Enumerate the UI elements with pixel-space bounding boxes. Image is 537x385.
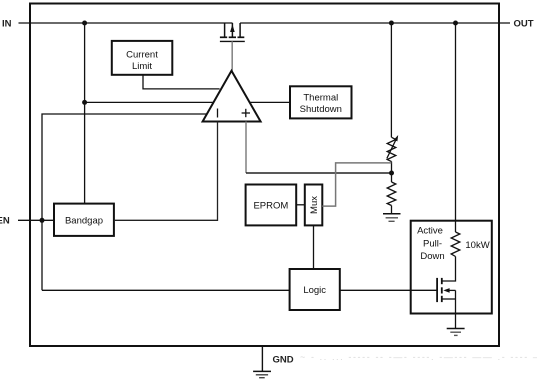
svg-text:EN: EN: [0, 216, 10, 227]
wire Mux output to divider tap: [322, 163, 391, 206]
svg-text:Pull-: Pull-: [423, 239, 442, 250]
block EPROM: [246, 185, 297, 226]
block Bandgap: [54, 204, 114, 236]
block Current Limit: [112, 41, 173, 75]
svg-text:Shutdown: Shutdown: [300, 104, 342, 115]
node junction on IN sense drop: [82, 100, 87, 105]
svg-text:EPROM: EPROM: [253, 200, 288, 211]
svg-text:Limit: Limit: [132, 61, 152, 72]
node junction pulldown tap on OUT rail: [453, 21, 458, 26]
svg-text:10kW: 10kW: [465, 240, 489, 251]
wire OUT rail down to 10kW resistor: [455, 23, 457, 232]
ground GND pin: [253, 371, 271, 377]
pin label GND: [273, 355, 294, 366]
wire EN input: [18, 219, 54, 221]
block Mux: [305, 185, 323, 226]
ground divider: [383, 214, 401, 222]
transistor pass PMOS Q1: [220, 23, 245, 41]
wire error-amp to Thermal Shutdown: [250, 101, 290, 103]
node junction feedback divider tap on OUT rail: [389, 21, 394, 26]
op-amp error amplifier U1: [203, 71, 261, 122]
block Active Pull-Down: [411, 221, 492, 314]
block Thermal Shutdown: [290, 86, 352, 118]
block Logic: [290, 269, 340, 310]
svg-text:Down: Down: [420, 251, 444, 262]
wire Current Limit to error-amp: [143, 75, 220, 89]
svg-text:OUT: OUT: [514, 18, 534, 29]
svg-text:Active: Active: [417, 225, 443, 236]
wire OUT rail: [240, 22, 510, 24]
wire NMOS source to ground: [455, 290, 457, 328]
wire Mux to Logic: [313, 225, 315, 269]
wire IN sense to error-amp: [85, 101, 214, 103]
svg-text:Bandgap: Bandgap: [65, 215, 103, 226]
wire non-inverting input to feedback node: [246, 122, 391, 174]
node junction on IN rail: [82, 21, 87, 26]
node junction feedback divider midpoint: [389, 171, 394, 176]
wire R1 bottom to node: [391, 162, 393, 182]
wire GND pin stem: [261, 346, 263, 371]
pin label EN: [0, 216, 10, 227]
wire OUT rail down to divider: [390, 23, 392, 137]
pin label OUT: [514, 18, 534, 29]
svg-text:Logic: Logic: [303, 285, 326, 296]
wire EN branch to error-amp: [42, 114, 207, 290]
ground pulldown: [447, 329, 465, 336]
IC boundary box: [30, 4, 499, 347]
resistor 10kW: [451, 232, 490, 257]
svg-text:IN: IN: [2, 18, 12, 29]
svg-text:GND: GND: [273, 355, 294, 366]
svg-text:~ - .. ... ----- -- -—- ----.: ~ - .. ... ----- -- -—- ----. -—--- —— .…: [300, 352, 537, 362]
node junction on EN wire: [40, 218, 45, 223]
wire 10kW to NMOS drain: [442, 257, 456, 282]
wire IN rail: [19, 22, 233, 24]
resistor R2 bottom of divider: [387, 182, 396, 214]
svg-text:Thermal: Thermal: [303, 93, 338, 104]
pin label IN: [2, 18, 12, 29]
wire gate of Q1 to error-amp output: [231, 41, 233, 70]
transistor pulldown NMOS Q2: [437, 278, 455, 302]
wire EN branch to Logic: [42, 289, 290, 291]
wire Bandgap reference to inverting input: [114, 122, 218, 221]
watermark smudge: [300, 352, 537, 362]
resistor R1 adjustable top of divider: [387, 135, 398, 162]
wire Logic to pulldown gate: [340, 289, 437, 291]
wire IN rail down to Bandgap: [84, 23, 86, 204]
wire EPROM to Mux: [296, 204, 305, 206]
svg-text:Mux: Mux: [309, 196, 320, 214]
svg-text:Current: Current: [126, 50, 158, 61]
